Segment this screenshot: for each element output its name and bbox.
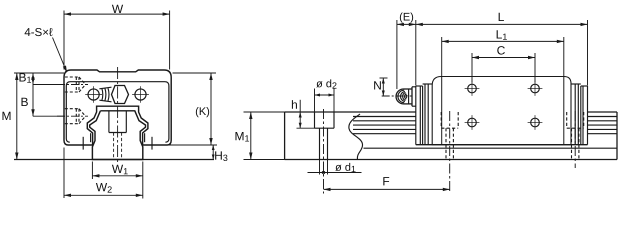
hidden side tapped hole at y=116.2	[65, 108, 79, 110]
dimension W1 extension lines	[91, 162, 93, 180]
linear guide block body outline (end view)	[64, 70, 171, 145]
top reference extension line right (K)	[173, 72, 217, 74]
dimension (K) text	[196, 107, 199, 117]
hole 1 centerline	[323, 109, 325, 194]
dimension W1 text	[112, 165, 123, 173]
dimension ød2 text	[316, 81, 322, 87]
rail left end edge (side view)	[284, 112, 286, 160]
dimension W1 line	[92, 175, 142, 177]
end cap parting lines on block face	[441, 77, 443, 145]
dimension ød1 line	[308, 172, 362, 174]
dimension M1 extension lines	[244, 111, 285, 113]
rail bolt through hole hidden lines (end view)	[113, 133, 115, 160]
dimension B text	[21, 98, 27, 106]
dimension ød1 extension lines	[319, 160, 321, 175]
dimension ød1 text	[335, 165, 341, 171]
rail bolt counterbore (end view)	[108, 111, 110, 133]
dimension L text	[499, 13, 504, 21]
hole 3 centerline	[574, 111, 576, 168]
dimension (E)/L extension lines	[396, 20, 398, 89]
dimension N extension line	[380, 77, 388, 79]
extension line at upper tapped hole centre	[33, 84, 65, 86]
dimension C extension lines	[471, 53, 473, 83]
hidden side tapped hole at y=84.5	[65, 76, 79, 78]
dimension ød2 line	[315, 94, 335, 96]
dimension (K) line	[210, 73, 212, 145]
dimension N line	[382, 78, 384, 96]
dimension M1 line	[250, 112, 252, 160]
block bottom extension line to H3	[168, 144, 217, 146]
dimension (E)/L line	[397, 23, 588, 25]
hidden counterbore hole 2 under block	[440, 112, 442, 128]
rail break line	[349, 114, 363, 160]
dimension W2 text	[96, 183, 107, 191]
block body outline (side view)	[432, 77, 571, 145]
dimension M line	[16, 73, 18, 160]
label 4-S×ℓ text	[25, 28, 31, 36]
dimension B1 text	[19, 73, 25, 81]
dimension (E) text	[400, 13, 403, 23]
dimension L1 line	[442, 40, 564, 42]
end seal outline (end view)	[66, 82, 169, 143]
left leg raceway centre tick	[82, 137, 84, 150]
vertical centerline of left view	[117, 67, 119, 163]
block mounting hole at (472.0,122.5)	[468, 118, 477, 127]
dimension F line	[324, 188, 450, 190]
grease nipple dome (side view)	[396, 89, 403, 104]
block bottom edge (side view)	[416, 144, 588, 146]
rail top edge left of break	[285, 111, 416, 113]
dimension C line	[472, 57, 535, 59]
dimension W2 extension line	[63, 148, 65, 199]
end face tapped hole right circle	[135, 89, 146, 100]
right end cap and seal (side view)	[587, 86, 589, 145]
right leg raceway centre tick	[151, 137, 153, 150]
dimension L1 text	[497, 30, 502, 38]
grease nipple hex body (end view)	[112, 86, 129, 104]
dimension W extension lines	[63, 11, 65, 70]
dimension M1 text	[235, 132, 243, 140]
end face tapped hole left circle	[88, 89, 99, 100]
label 4-S×ℓ leader line	[53, 38, 67, 72]
rail bottom edge	[285, 159, 617, 161]
rail cross-section profile	[90, 111, 146, 160]
dimension h line	[299, 100, 301, 128]
extension line at lower tapped hole centre	[33, 115, 65, 117]
grease nipple barrel (side view)	[404, 88, 413, 90]
rail right end edge	[616, 112, 618, 160]
grease nipple centerline	[382, 95, 412, 97]
block mounting hole at (535.0,122.5)	[531, 118, 540, 127]
dimension H3 text	[215, 151, 222, 159]
rail flange line	[364, 147, 618, 149]
dimension h extension line	[297, 127, 315, 129]
end seal inner leg lines	[90, 133, 92, 142]
dimension ød2 extension lines	[314, 89, 316, 113]
dimension N text	[374, 81, 381, 89]
dimension W line	[64, 13, 170, 15]
grease nipple bellows (end view)	[99, 87, 111, 89]
dimension B1/B line	[32, 73, 34, 116]
dimension H3 line	[212, 145, 214, 160]
block mounting hole at (472.0,88.5)	[468, 84, 477, 93]
hole 2 centerline	[449, 111, 451, 194]
block mounting hole at (535.0,88.5)	[531, 84, 540, 93]
dimension L1 extension lines	[441, 37, 443, 77]
dimension W text	[112, 5, 123, 13]
rail bottom extension line (left view)	[14, 159, 214, 161]
hidden counterbore hole 3	[566, 112, 568, 128]
counterbore hole 1 (visible)	[314, 112, 316, 128]
dimension W2 line	[64, 194, 143, 196]
rail top edge right of block	[588, 111, 618, 113]
dimension C text	[497, 46, 505, 54]
dimension F text	[383, 177, 389, 185]
left end cap and seal (side view)	[415, 86, 417, 145]
top reference extension line	[14, 72, 64, 74]
rail groove lines (side view)	[353, 116, 416, 118]
dimension M text	[2, 112, 10, 120]
dimension h text	[292, 100, 297, 109]
